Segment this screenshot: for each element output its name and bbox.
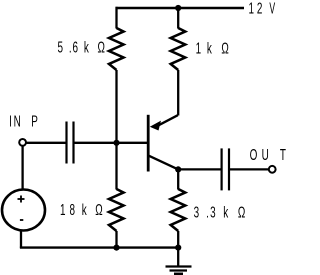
node : input label IN P bbox=[9, 112, 38, 130]
capacitor C1 input coupling : right plate bbox=[72, 122, 74, 164]
svg-text:5: 5 bbox=[57, 38, 63, 56]
svg-text:Ω: Ω bbox=[221, 39, 228, 57]
wire : collector diagonal into transistor bar bbox=[159, 115, 178, 125]
svg-text:k: k bbox=[82, 201, 87, 219]
junction dot : R4 bottom on ground rail bbox=[175, 245, 181, 251]
wire : +12V top rail bbox=[116, 7, 245, 9]
value label 5.6 k ohm bbox=[57, 38, 105, 56]
junction dot : base node bbox=[113, 140, 119, 146]
ground symbol bar 3 bbox=[174, 273, 183, 275]
svg-text:V: V bbox=[269, 0, 275, 17]
resistor R1 5.6k zigzag bbox=[109, 28, 124, 70]
source VS minus sign bbox=[20, 219, 23, 221]
resistor R3 18k zigzag bbox=[109, 189, 124, 231]
capacitor C2 output coupling : left plate bbox=[221, 148, 223, 190]
wire : source VS bottom to ground rail bbox=[20, 230, 22, 248]
wire : input terminal to capacitor C1 bbox=[26, 142, 67, 144]
svg-text:3: 3 bbox=[210, 203, 216, 221]
svg-text:1: 1 bbox=[196, 39, 202, 57]
transistor Q1 base bar bbox=[147, 115, 150, 172]
source VS plus sign bbox=[18, 196, 25, 203]
svg-text:6: 6 bbox=[73, 38, 79, 56]
value label 18 k ohm bbox=[60, 201, 103, 219]
svg-text:3: 3 bbox=[194, 203, 200, 221]
wire : rail down to R1 top bbox=[115, 7, 117, 29]
svg-text:T: T bbox=[280, 146, 286, 164]
svg-text:1: 1 bbox=[248, 0, 254, 17]
wire : bottom ground rail bbox=[20, 246, 179, 248]
svg-text:k: k bbox=[207, 39, 212, 57]
svg-text:8: 8 bbox=[70, 201, 76, 219]
node : 12V supply label bbox=[248, 0, 275, 17]
wire : ground stub bbox=[177, 248, 179, 266]
svg-text:P: P bbox=[31, 112, 38, 130]
svg-text:k: k bbox=[223, 203, 228, 221]
junction dot : top rail to R2 branch bbox=[175, 5, 181, 11]
svg-text:.: . bbox=[69, 38, 72, 56]
svg-text:I: I bbox=[9, 112, 12, 130]
wire : emitter node to capacitor C2 bbox=[178, 168, 221, 170]
transistor Q1 collector arrowhead bbox=[150, 121, 161, 131]
source VS signal generator circle bbox=[2, 190, 45, 231]
wire : capacitor C1 to base node and transistor base bbox=[74, 142, 148, 144]
svg-text:O: O bbox=[250, 146, 258, 164]
node : input terminal circle bbox=[19, 139, 26, 146]
value label 3.3 k ohm bbox=[194, 203, 246, 221]
wire : R4 bottom to ground rail bbox=[177, 231, 179, 248]
wire : base node down to R3 top bbox=[115, 143, 117, 190]
wire : input terminal down to source VS bbox=[21, 145, 23, 190]
svg-text:Ω: Ω bbox=[95, 201, 102, 219]
wire : R3 bottom to ground rail bbox=[115, 231, 117, 248]
svg-text:1: 1 bbox=[60, 201, 66, 219]
transistor Q1 emitter diagonal bbox=[149, 156, 178, 170]
junction dot : R3 bottom on ground rail bbox=[113, 245, 119, 251]
value label 1 k ohm bbox=[196, 39, 229, 57]
ground symbol bar 1 bbox=[166, 265, 192, 267]
svg-text:.: . bbox=[206, 203, 209, 221]
wire : rail down to R2 top bbox=[177, 8, 179, 29]
resistor R2 1k zigzag bbox=[171, 28, 186, 70]
node : output terminal circle bbox=[269, 166, 276, 173]
svg-text:U: U bbox=[262, 146, 269, 164]
svg-text:k: k bbox=[84, 38, 89, 56]
svg-text:Ω: Ω bbox=[97, 38, 104, 56]
ground symbol bar 2 bbox=[170, 269, 188, 271]
svg-text:N: N bbox=[14, 112, 21, 130]
svg-text:Ω: Ω bbox=[238, 203, 245, 221]
wire : emitter node down to R4 top bbox=[177, 169, 179, 189]
capacitor C2 output coupling : right plate bbox=[228, 148, 230, 190]
wire : R1 bottom down to base node bbox=[115, 70, 117, 143]
resistor R4 3.3k zigzag bbox=[171, 189, 186, 231]
wire : R2 bottom down to collector corner bbox=[177, 70, 179, 116]
svg-text:2: 2 bbox=[257, 0, 263, 17]
capacitor C1 input coupling : left plate bbox=[65, 122, 67, 164]
wire : capacitor C2 to output terminal bbox=[229, 168, 269, 170]
junction dot : emitter node bbox=[175, 166, 181, 172]
node : output label OUT bbox=[250, 146, 286, 164]
